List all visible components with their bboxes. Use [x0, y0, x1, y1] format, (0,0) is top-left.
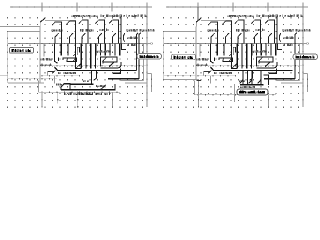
- transistor M7a folded pair: [55, 56, 77, 64]
- wire VDD rail top b: [166, 6, 308, 7]
- label gnd net a: [64, 92, 110, 95]
- port input pin label b: [172, 54, 196, 60]
- wire gate row b: [201, 20, 232, 22]
- wire comb lower legs a: [81, 56, 95, 69]
- transistor M9b NMOS triple: [240, 71, 261, 85]
- wire right boundary net b: [302, 7, 303, 107]
- transistor M2a PMOS: [66, 21, 75, 44]
- transistor M3b PMOS: [235, 20, 244, 43]
- wire internal node bus b: [204, 67, 293, 84]
- wire gate column b: [196, 27, 200, 80]
- wire output riser b: [277, 33, 304, 83]
- schematic sheet 1 (left cell): [0, 3, 162, 108]
- label net names top row a: [72, 14, 147, 17]
- wire stub to lower right b: [303, 74, 308, 93]
- node output stub a: [147, 43, 153, 45]
- wire VDD rail top a: [10, 6, 152, 7]
- wire input A from left edge a: [0, 21, 40, 27]
- wire corner glyph right of comb b: [277, 17, 282, 50]
- label net name mid b: [285, 36, 295, 38]
- label net name at riser b: [284, 43, 293, 45]
- wire output riser a: [121, 33, 148, 83]
- wire bus rail N3 a: [8, 75, 80, 79]
- label gate nets a: [40, 58, 52, 66]
- port input pin label a: [10, 48, 34, 54]
- wire bottom-left drop b: [196, 81, 234, 108]
- wire bus rail N3 b: [164, 75, 236, 76]
- label gate nets b: [196, 58, 208, 66]
- wire corner glyph right of comb a: [121, 17, 126, 50]
- port output pin label a: [137, 54, 162, 60]
- port output pin label b: [293, 54, 318, 60]
- wire drain-gate comb a: [55, 44, 120, 56]
- schematic sheet 2 (right cell): [163, 3, 318, 108]
- wire bus rail N2 b: [196, 65, 303, 66]
- label net names second row b: [208, 29, 312, 32]
- wire input diagonal b: [196, 18, 201, 22]
- wire comb lower legs b: [237, 56, 251, 69]
- wire bus rail N1 a: [8, 43, 147, 44]
- wire stub left edge lower a: [0, 75, 8, 77]
- transistor M5a PMOS: [109, 20, 118, 44]
- wire VSS rail bottom a: [39, 81, 121, 108]
- transistor M9a NMOS: [61, 84, 70, 90]
- wire right boundary net a: [146, 7, 147, 107]
- transistor M4b PMOS: [251, 20, 260, 43]
- label net name at riser a: [128, 43, 137, 45]
- wire NMOS source bar b: [240, 75, 269, 88]
- wire lower dark bus b: [264, 68, 295, 79]
- transistor M5b PMOS: [265, 20, 274, 44]
- transistor M6b glyph: [229, 47, 237, 69]
- transistor M8a nested loops: [100, 57, 121, 68]
- wire input A from top rail b: [196, 7, 198, 27]
- transistor M1a PMOS: [52, 22, 61, 44]
- wire drain-gate comb b: [211, 44, 276, 56]
- label net name mid a: [129, 36, 139, 38]
- transistor M2b PMOS: [222, 21, 231, 44]
- wire gate column a: [40, 27, 44, 84]
- transistor M6a glyph: [73, 47, 81, 69]
- cell outline box a: [8, 32, 44, 84]
- wire lower dark bus a: [108, 68, 139, 79]
- transistor M4a PMOS: [95, 20, 104, 43]
- label net names second row a: [52, 29, 156, 32]
- wire bus rail N2 a: [40, 65, 147, 66]
- label net name comb b: [239, 50, 267, 82]
- wire bottom-left drop a: [41, 90, 78, 108]
- wire stub to lower right a: [147, 74, 152, 93]
- cell outline box b: [164, 32, 199, 80]
- transistor M3a PMOS: [79, 20, 88, 43]
- wire internal node bus a: [48, 67, 137, 84]
- wire bus rail N1 b: [164, 43, 303, 44]
- label net names top row b: [228, 14, 303, 17]
- transistor M8b nested loops: [256, 57, 277, 68]
- node grid crosses on top rail a: [42, 3, 147, 12]
- wire NMOS source bar a: [56, 83, 115, 90]
- wire VSS rail bottom b: [195, 81, 277, 108]
- node grid crosses on top rail b: [198, 3, 303, 12]
- wire input diagonal a: [40, 18, 45, 22]
- port power pin label b: [235, 84, 269, 102]
- transistor M7b folded pair: [211, 56, 233, 64]
- label net name comb a: [83, 50, 111, 82]
- transistor M1b PMOS: [208, 22, 217, 44]
- node output stub b: [303, 43, 309, 45]
- wire gate row a: [45, 20, 76, 22]
